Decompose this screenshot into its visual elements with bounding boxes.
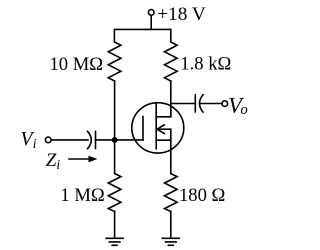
capacitor C2 curved plate — [200, 95, 204, 112]
svg-text:+18 V: +18 V — [157, 4, 206, 25]
capacitor C1 plate — [95, 131, 97, 148]
resistor RS 180 — [165, 174, 178, 212]
wire left branch mid — [114, 81, 116, 174]
svg-text:1.8 kΩ: 1.8 kΩ — [180, 53, 231, 74]
svg-text:Zi: Zi — [46, 150, 61, 172]
svg-text:10 MΩ: 10 MΩ — [50, 54, 104, 75]
terminal Vi — [45, 137, 51, 143]
wire output tap — [171, 103, 196, 105]
resistor RD 1.8k — [165, 42, 178, 81]
svg-text:1 MΩ: 1 MΩ — [60, 185, 104, 206]
mosfet channel bar — [155, 103, 157, 149]
capacitor C2 plate — [194, 95, 196, 112]
wire top rail — [114, 29, 170, 42]
wire to Vo — [201, 103, 222, 105]
mosfet gate bar — [142, 117, 144, 141]
ground right — [162, 238, 179, 245]
wire gate lead — [96, 139, 144, 141]
wire drain lead — [170, 81, 172, 117]
wire left ground lead — [114, 212, 116, 239]
arrow Zi — [69, 156, 97, 163]
terminal +18V — [148, 10, 154, 16]
svg-text:Vi: Vi — [20, 128, 36, 152]
svg-text:Vo: Vo — [228, 92, 248, 118]
wire right ground lead — [170, 212, 172, 239]
wire source lead — [170, 129, 172, 173]
capacitor C1 curved plate — [88, 131, 92, 148]
resistor R1 10M — [108, 42, 121, 81]
node gate junction — [112, 137, 118, 143]
mosfet source connect — [156, 139, 171, 141]
terminal Vo — [222, 101, 228, 107]
resistor RG 1M — [108, 174, 121, 212]
wire input — [51, 139, 88, 141]
mosfet substrate arrow — [157, 125, 171, 134]
svg-text:180 Ω: 180 Ω — [179, 185, 225, 206]
mosfet Q1 circle — [132, 103, 184, 153]
wire supply stub — [150, 15, 152, 29]
mosfet drain connect — [156, 110, 171, 117]
ground left — [106, 238, 123, 245]
